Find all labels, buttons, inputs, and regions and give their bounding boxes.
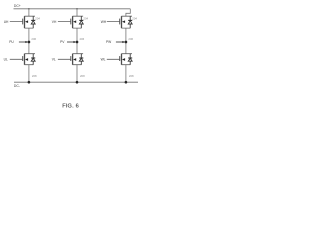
svg-text:204: 204 — [35, 17, 40, 21]
svg-text:FIG. 6: FIG. 6 — [62, 104, 79, 110]
svg-text:DC-: DC- — [14, 84, 20, 88]
svg-text:VH: VH — [52, 20, 57, 24]
svg-text:UH: UH — [4, 20, 9, 24]
svg-text:PW: PW — [106, 40, 112, 44]
svg-text:204: 204 — [83, 17, 88, 21]
svg-text:VL: VL — [52, 58, 56, 62]
svg-text:206: 206 — [80, 37, 85, 41]
svg-text:WH: WH — [101, 20, 107, 24]
svg-text:208: 208 — [80, 74, 85, 78]
svg-text:WL: WL — [101, 58, 106, 62]
svg-text:PU: PU — [9, 40, 14, 44]
svg-text:206: 206 — [128, 37, 133, 41]
svg-text:204: 204 — [132, 17, 137, 21]
svg-text:UL: UL — [4, 58, 8, 62]
svg-text:206: 206 — [31, 37, 36, 41]
svg-text:208: 208 — [129, 74, 134, 78]
svg-text:DC+: DC+ — [14, 4, 21, 8]
svg-text:208: 208 — [32, 74, 37, 78]
